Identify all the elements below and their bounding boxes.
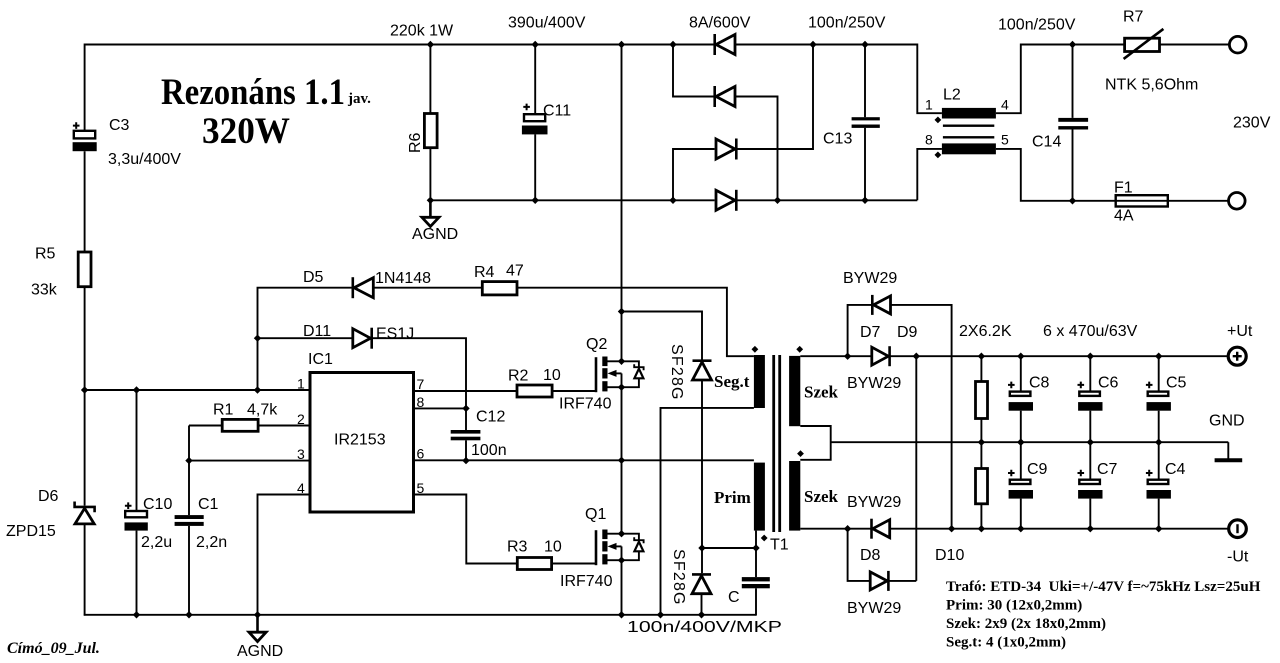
svg-text:jav.: jav. <box>347 91 371 107</box>
wire R7 to terminal <box>1160 44 1230 46</box>
svg-text:3,3u/400V: 3,3u/400V <box>108 151 181 168</box>
junction dot D9 at minus rail <box>948 525 955 532</box>
wire top rail left (C3 corner to bridge) <box>85 45 715 131</box>
svg-text:BYW29: BYW29 <box>847 494 901 511</box>
svg-text:Szek: Szek <box>804 383 839 402</box>
wire bleeder R lower top lead <box>980 442 982 468</box>
svg-text:33k: 33k <box>31 281 58 298</box>
terminal +Ut <box>1228 347 1246 365</box>
wire top rail right (bridge to L2 corner) <box>735 45 942 114</box>
svg-text:4,7k: 4,7k <box>247 402 278 419</box>
svg-text:SF28G: SF28G <box>668 344 685 401</box>
svg-text:C13: C13 <box>823 131 852 148</box>
wire pin3 line <box>189 460 310 462</box>
inductor L2 winding 1-4 <box>942 108 996 119</box>
capacitor C7 <box>1078 442 1103 529</box>
op-amp IC1 IR2153 box <box>310 373 414 513</box>
resistor bleeder lower 6.2K <box>976 469 988 504</box>
transformer T1 Seg.t winding bar <box>754 355 765 408</box>
capacitor C4 <box>1146 442 1171 529</box>
junction dot Q2 source <box>618 384 625 391</box>
wire bridge branch3 <box>673 149 715 200</box>
svg-text:C9: C9 <box>1027 461 1048 478</box>
svg-text:AGND: AGND <box>237 643 283 660</box>
terminal 230V line1 <box>1229 36 1246 53</box>
svg-text:IR2153: IR2153 <box>334 432 386 449</box>
junction dot pin8 node <box>462 405 469 412</box>
svg-text:1N4148: 1N4148 <box>375 270 431 287</box>
capacitor C10 wire top <box>136 390 138 511</box>
wire C12 top lead <box>465 408 467 430</box>
wire D6 to ground rail <box>84 524 86 616</box>
junction dot C10 at ground rail <box>133 611 140 618</box>
junction dot node A (Szek upper outer) <box>844 353 851 360</box>
ground AGND symbol upper <box>422 200 439 226</box>
svg-text:AGND: AGND <box>412 226 458 243</box>
svg-text:C10: C10 <box>143 496 172 513</box>
svg-text:6: 6 <box>417 445 425 461</box>
inductor L2 winding 8-5 <box>942 143 996 154</box>
wire pin8 stub <box>414 407 467 409</box>
wire center tap to GND rail <box>831 441 1229 443</box>
wire primary bottom lead <box>755 531 757 548</box>
junction dot clamp node at SF28G <box>698 544 705 551</box>
diode D9 BYW29 <box>872 295 890 315</box>
phase dot Prim <box>761 535 768 542</box>
wire clamp top branch <box>622 312 703 361</box>
wire pin5 to R3 <box>414 495 518 564</box>
phase dot Seg.t <box>752 346 759 353</box>
resistor R3 <box>517 558 551 570</box>
junction dot ac1 at top rail <box>809 41 816 48</box>
diode D11 ES1J <box>353 328 372 349</box>
capacitor C10 <box>125 502 148 530</box>
wire C12 bottom lead <box>465 440 467 460</box>
diode bridge D-a (top, on dc-plus rail) <box>715 34 735 55</box>
wire D5 to R4 <box>373 287 482 289</box>
capacitor C11 <box>522 104 548 135</box>
wire bridge branch2 <box>673 45 715 97</box>
capacitor C13 <box>852 117 880 128</box>
junction dot C11 top <box>532 41 539 48</box>
wire D9 branch <box>848 305 872 356</box>
svg-text:8A/600V: 8A/600V <box>689 15 751 32</box>
capacitor C6 <box>1078 356 1103 442</box>
svg-text:4A: 4A <box>1114 208 1134 225</box>
wire minus rail <box>890 528 1229 530</box>
wire L2 pin5 to bottom right rail <box>996 149 1116 201</box>
junction dot C5 bottom <box>1155 439 1162 446</box>
junction dot bleeder mid <box>978 439 985 446</box>
wire R2 to Q2 gate <box>552 390 596 392</box>
wire Q1 drain <box>621 460 623 533</box>
svg-text:Prim: 30 (12x0,2mm): Prim: 30 (12x0,2mm) <box>946 598 1082 614</box>
fuse F1 <box>1116 195 1168 206</box>
svg-text:C: C <box>728 589 740 606</box>
wire R3 to Q1 gate <box>552 563 596 565</box>
junction dot ac2 at bottom rail <box>774 197 781 204</box>
junction dot C6 top <box>1087 353 1094 360</box>
svg-text:SF28G: SF28G <box>670 549 687 606</box>
transistor Q1 IRF740 <box>596 530 644 566</box>
junction dot bridge dc-plus top left <box>669 41 676 48</box>
svg-text:R6: R6 <box>407 132 424 153</box>
wire pin6 line to primary <box>414 459 754 461</box>
junction dot dc bus top <box>618 41 625 48</box>
svg-text:R1: R1 <box>213 402 234 419</box>
svg-text:D7: D7 <box>860 324 881 341</box>
wire C14 bottom lead <box>1072 130 1074 201</box>
wire R6 top lead <box>429 45 431 114</box>
svg-text:47: 47 <box>506 263 524 280</box>
svg-text:R3: R3 <box>507 539 528 556</box>
capacitor C3 <box>73 122 97 151</box>
svg-text:230V: 230V <box>1233 115 1271 132</box>
svg-text:C3: C3 <box>109 117 130 134</box>
svg-text:10: 10 <box>544 539 562 556</box>
wire R4 to Seg.t winding top <box>517 288 754 357</box>
diode SF28G lower <box>692 574 711 593</box>
terminal -Ut <box>1229 520 1247 538</box>
wire Q2 source to pin6 line <box>621 387 623 460</box>
wire pin4 to ground rail <box>258 495 311 615</box>
wire L2 pin4 to top right rail <box>996 45 1125 114</box>
svg-text:BYW29: BYW29 <box>843 270 897 287</box>
junction dot pin1 line at left column <box>81 386 88 393</box>
wire bridge branch3 right to ac1 <box>736 45 813 150</box>
svg-text:2,2u: 2,2u <box>141 534 172 551</box>
svg-text:R2: R2 <box>508 368 529 385</box>
wire Szek upper outer lead <box>800 355 872 357</box>
resistor R2 <box>517 385 552 397</box>
resistor R6 <box>424 114 437 148</box>
svg-text:C12: C12 <box>476 409 505 426</box>
diode D8 BYW29 <box>872 519 890 539</box>
svg-text:BYW29: BYW29 <box>847 600 901 617</box>
wire C3 to R5 <box>84 151 86 252</box>
svg-text:L2: L2 <box>943 87 961 104</box>
svg-text:GND: GND <box>1209 413 1245 430</box>
wire plus rail <box>890 355 1229 357</box>
phase dot Szek lower <box>797 450 804 457</box>
svg-text:R7: R7 <box>1123 9 1144 26</box>
junction dot half-bridge midpoint <box>618 457 625 464</box>
svg-text:IRF740: IRF740 <box>559 396 612 413</box>
svg-text:Q2: Q2 <box>586 336 607 353</box>
diode bridge D-b (second) <box>715 86 735 107</box>
wire R1 to pin2 <box>258 425 310 427</box>
junction dot C12 at pin6 line <box>462 457 469 464</box>
phase dot L2 winding2 <box>935 152 942 159</box>
resistor bleeder upper 6.2K <box>976 382 988 419</box>
wire control ground rail <box>84 614 756 616</box>
wire R1/C1 vertical <box>188 426 190 516</box>
svg-text:100n/250V: 100n/250V <box>998 17 1076 34</box>
junction dot C5 top <box>1155 353 1162 360</box>
svg-text:10: 10 <box>543 367 561 384</box>
junction dot Q1 source <box>618 557 625 564</box>
capacitor C1 <box>175 515 204 526</box>
svg-text:Szek: 2x9 (2x 18x0,2mm): Szek: 2x9 (2x 18x0,2mm) <box>946 616 1106 632</box>
wire Q1 source to ground rail <box>621 560 623 615</box>
junction dot R6 top <box>427 41 434 48</box>
wire C13 bottom lead <box>864 128 866 201</box>
junction dot C9 top <box>1017 439 1024 446</box>
junction dot dc-minus at bottom rail <box>669 197 676 204</box>
wire D11 to pin8 node <box>372 338 466 408</box>
junction dot Seg.t return at ground rail <box>657 611 664 618</box>
junction dot pin1 line at D5 vertical <box>254 386 261 393</box>
svg-text:8: 8 <box>925 132 933 148</box>
svg-text:D8: D8 <box>860 547 881 564</box>
junction dot pin4 at ground rail <box>254 611 261 618</box>
diode D7 BYW29 <box>872 346 890 366</box>
junction dot node B (Szek lower outer) <box>844 525 851 532</box>
svg-text:Címó_09_Jul.: Címó_09_Jul. <box>7 640 100 657</box>
wire bridge dc-minus rail <box>430 199 714 201</box>
svg-text:+Ut: +Ut <box>1227 323 1253 340</box>
wire C10 bottom <box>136 531 138 615</box>
wire D10 cathode stub <box>888 580 916 582</box>
svg-text:4: 4 <box>1001 97 1009 113</box>
svg-text:2,2n: 2,2n <box>196 534 227 551</box>
junction dot C11 bottom <box>532 197 539 204</box>
svg-text:IRF740: IRF740 <box>560 573 613 590</box>
wire SF28G upper anode down to clamp node <box>701 380 703 548</box>
svg-text:100n: 100n <box>471 442 507 459</box>
wire D10 branch <box>848 529 871 581</box>
svg-text:5: 5 <box>417 480 425 496</box>
wire dc bus vertical to Q2 <box>621 45 623 362</box>
svg-text:Rezonáns 1.1: Rezonáns 1.1 <box>161 72 345 113</box>
svg-text:Q1: Q1 <box>585 506 606 523</box>
wire C cap bottom lead <box>755 588 757 615</box>
junction dot bleeder bottom <box>978 525 985 532</box>
wire D7 cathode down to D10 <box>915 356 917 581</box>
wire R5 to D6 <box>84 287 86 506</box>
svg-text:2X6.2K: 2X6.2K <box>959 323 1012 340</box>
svg-text:C8: C8 <box>1029 375 1050 392</box>
diode bridge D-c (third) <box>716 139 736 160</box>
diode D5 1N4148 <box>353 277 374 298</box>
wire C1 bottom <box>188 526 190 615</box>
svg-text:C11: C11 <box>543 103 571 120</box>
svg-text:ES1J: ES1J <box>376 326 414 343</box>
junction dot C7 bottom <box>1087 525 1094 532</box>
junction dot pin3 line at C1 vertical <box>185 457 192 464</box>
svg-text:Seg.t: 4 (1x0,2mm): Seg.t: 4 (1x0,2mm) <box>946 635 1066 651</box>
junction dot C13 bottom <box>861 197 868 204</box>
transformer T1 Szek lower winding bar <box>789 461 800 531</box>
diode bridge D-d (bottom, on rail) <box>716 190 736 211</box>
diode SF28G upper <box>693 361 712 380</box>
svg-text:320W: 320W <box>202 111 290 152</box>
svg-text:C7: C7 <box>1097 461 1118 478</box>
svg-text:D5: D5 <box>303 269 324 286</box>
junction dot C6 bottom <box>1087 439 1094 446</box>
capacitor C8 <box>1008 356 1033 442</box>
terminal 230V line2 <box>1229 193 1246 210</box>
wire C14 top lead <box>1072 45 1074 118</box>
transformer T1 Szek upper winding bar <box>789 356 800 426</box>
svg-text:1: 1 <box>925 97 933 113</box>
junction dot R6 bottom <box>427 197 434 204</box>
svg-text:1: 1 <box>297 376 305 392</box>
svg-text:100n/250V: 100n/250V <box>808 15 886 32</box>
junction dot C9 bottom <box>1017 525 1024 532</box>
capacitor C12 <box>451 430 481 440</box>
svg-text:D6: D6 <box>38 488 59 505</box>
svg-text:Prim: Prim <box>714 488 751 507</box>
junction dot Q1 drain <box>618 530 625 537</box>
zener diode D6 ZPD15 <box>75 502 95 524</box>
junction dot C13 top <box>861 41 868 48</box>
svg-text:BYW29: BYW29 <box>847 375 901 392</box>
svg-text:ZPD15: ZPD15 <box>6 523 56 540</box>
transistor Q2 IRF740 <box>596 357 644 393</box>
transformer T1 Prim winding bar <box>754 463 765 531</box>
junction dot C10 top at Vcc line <box>133 386 140 393</box>
wire C11 top lead <box>534 45 536 114</box>
svg-text:C6: C6 <box>1098 375 1119 392</box>
wire C13 top lead <box>864 45 866 118</box>
resistor R1 <box>222 419 258 431</box>
wire SF28G lower cathode up to clamp node <box>701 548 703 573</box>
wire Szek lower outer lead (minus rail left) <box>800 528 871 530</box>
svg-text:D10: D10 <box>935 547 964 564</box>
svg-text:C5: C5 <box>1166 375 1187 392</box>
svg-text:C1: C1 <box>198 496 219 513</box>
phase dot Szek upper <box>796 346 803 353</box>
wire bridge branch2 right to ac2 <box>735 97 778 201</box>
ground GND symbol <box>1215 442 1243 460</box>
wire C cap top lead <box>755 548 757 577</box>
wire bottom rail right of D-d <box>736 199 917 201</box>
junction dot bleeder top <box>978 353 985 360</box>
junction dot SF28G lower at ground rail <box>698 611 705 618</box>
svg-text:Seg.t: Seg.t <box>714 372 750 391</box>
resistor R4 <box>482 282 517 295</box>
resistor R5 <box>78 252 91 287</box>
junction dot D7 cathode node <box>913 353 920 360</box>
diode D10 BYW29 <box>870 571 888 591</box>
svg-text:Trafó: ETD-34 Uki=+/-47V f=~7: Trafó: ETD-34 Uki=+/-47V f=~75kHz Lsz=25… <box>946 579 1261 595</box>
wire Seg.t bottom return <box>661 408 754 615</box>
svg-text:100n/400V/MKP: 100n/400V/MKP <box>627 619 782 636</box>
svg-text:D9: D9 <box>897 324 918 341</box>
junction dot C cap top junction <box>752 544 759 551</box>
wire bleeder R upper top lead <box>980 356 982 381</box>
junction dot C4 bottom <box>1155 525 1162 532</box>
ground AGND symbol lower <box>249 615 266 642</box>
wire bleeder R upper bottom lead <box>980 419 982 443</box>
transformer T1 core bars <box>772 355 781 532</box>
svg-text:220k 1W: 220k 1W <box>390 23 454 40</box>
wire Szek center tap <box>800 426 830 460</box>
capacitor C 100n/400V/MKP <box>742 577 770 588</box>
wire SF28G lower anode to ground rail <box>701 594 703 615</box>
phase dot L2 winding1 <box>935 117 942 124</box>
svg-text:5: 5 <box>1001 132 1009 148</box>
svg-text:6 x 470u/63V: 6 x 470u/63V <box>1043 323 1138 340</box>
svg-text:NTK 5,6Ohm: NTK 5,6Ohm <box>1105 77 1198 94</box>
wire D11 line <box>258 337 353 339</box>
wire L2 pin8 lead <box>917 149 942 200</box>
junction dot C14 top <box>1069 41 1076 48</box>
svg-text:R4: R4 <box>474 264 495 281</box>
junction dot D11 line at left vertical <box>254 335 261 342</box>
svg-text:IC1: IC1 <box>308 351 333 368</box>
svg-text:D11: D11 <box>303 323 331 340</box>
wire pin7 line <box>414 390 518 392</box>
junction dot Q1 source at ground rail <box>618 611 625 618</box>
svg-text:T1: T1 <box>770 537 789 554</box>
svg-text:-Ut: -Ut <box>1227 549 1249 566</box>
junction dot C14 bottom <box>1069 197 1076 204</box>
capacitor C5 <box>1146 356 1171 442</box>
wire bleeder R lower bottom lead <box>980 504 982 529</box>
svg-text:R5: R5 <box>35 246 56 263</box>
junction dot C8 bottom <box>1017 439 1024 446</box>
capacitor C9 <box>1008 442 1033 529</box>
wire R1 left lead <box>189 425 222 427</box>
inductor L2 core bars <box>943 125 994 139</box>
svg-text:390u/400V: 390u/400V <box>508 15 586 32</box>
wire D5 line from left vertical <box>258 288 352 390</box>
capacitor C14 <box>1058 118 1088 130</box>
svg-text:F1: F1 <box>1114 180 1133 197</box>
wire R6 bottom lead <box>429 148 431 201</box>
junction dot Q2 drain branch <box>618 308 625 315</box>
wire F1 to terminal <box>1168 200 1229 202</box>
wire pin1 rail (Vcc line) <box>85 389 310 391</box>
wire C11 bottom lead <box>534 134 536 200</box>
svg-text:Szek: Szek <box>804 487 839 506</box>
svg-text:7: 7 <box>417 376 425 392</box>
wire clamp node to C cap junction <box>702 547 756 549</box>
thermistor R7 NTK <box>1124 29 1164 59</box>
junction dot C8 top <box>1017 353 1024 360</box>
svg-text:C14: C14 <box>1032 134 1061 151</box>
junction dot C1 at ground rail <box>185 611 192 618</box>
junction dot Q2 drain <box>618 358 625 365</box>
wire D9 anode to minus rail <box>891 305 952 529</box>
svg-text:C4: C4 <box>1165 461 1186 478</box>
